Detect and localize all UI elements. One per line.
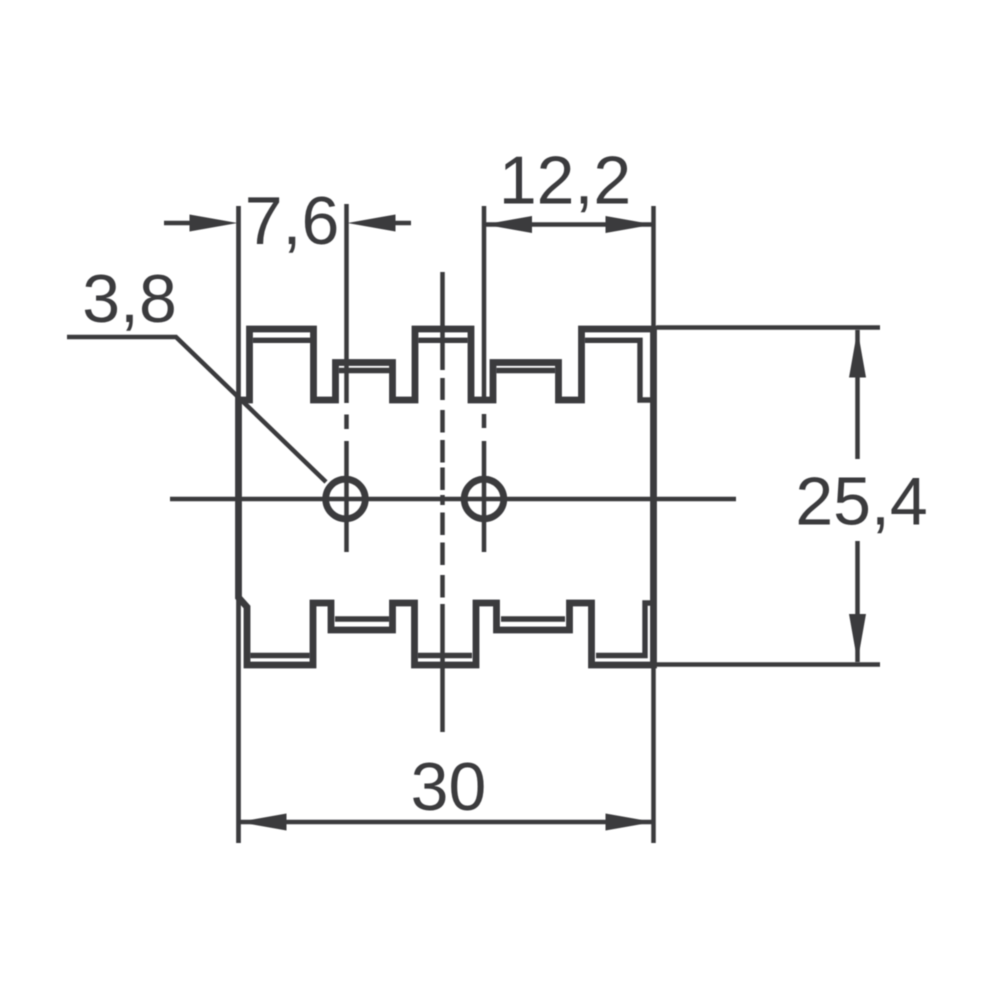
horizontal center line [170, 497, 736, 502]
central vertical axis line (dash-dot) [440, 272, 445, 732]
svg-text:7,6: 7,6 [245, 183, 340, 259]
tab T4 fold inner line (top short tab right) [497, 368, 556, 373]
dimension 25,4 : top extension line [657, 325, 881, 330]
mounting hole H1 (3,8 dia) [326, 479, 366, 519]
arrowhead 12,2 right (points right) [606, 216, 654, 233]
tab T3 fold inner line (top middle tall tab) [419, 338, 468, 343]
arrowhead 12,2 left (points left) [484, 216, 532, 233]
tab B3 fold inner line (bottom middle tall tab) [418, 653, 472, 658]
tab T1 fold inner line (top-left tall tab) [253, 338, 311, 343]
dimension 12,2 : dimension line [484, 222, 654, 227]
left extension line / body left edge extension (x=238.5) [236, 206, 241, 843]
heatsink outer profile outline [239, 329, 654, 665]
arrowhead 7,6 right (points left at x=347) [348, 215, 396, 232]
tab B2 fold inner line (bottom short tab) [335, 616, 389, 621]
svg-text:3,8: 3,8 [82, 261, 177, 337]
tab B4 fold inner line (bottom short tab right) [501, 616, 565, 621]
tab B5 fold inner line with step (bottom-right tall tab) [596, 603, 651, 656]
dimension 30 : dimension line [239, 820, 654, 825]
arrowhead 25,4 top (points up) [849, 330, 866, 378]
dimension 25,4 : bottom extension line [657, 662, 881, 667]
right extension line above and below body (x=653.5) [651, 206, 656, 843]
hole H2 center line (vertical, dash-dot) [482, 206, 487, 552]
arrowhead 25,4 bottom (points down) [849, 614, 866, 662]
hole H1 center line (vertical, dash-dot) [344, 204, 349, 552]
arrowhead 30 right (points right) [606, 814, 654, 831]
mounting hole H2 [464, 479, 504, 519]
dimension 7,6 : left outside arrow tail [164, 221, 192, 226]
tab T5 fold inner line with step (top-right tall tab) [585, 340, 651, 400]
leader line for 3,8 [67, 337, 326, 482]
svg-text:25,4: 25,4 [795, 464, 927, 540]
tab B1 fold inner line (bottom-left tall tab) [251, 653, 310, 658]
svg-text:12,2: 12,2 [499, 143, 631, 219]
tab T2 fold inner line (top short tab) [339, 368, 390, 373]
svg-text:30: 30 [411, 749, 487, 825]
dimension 7,6 : right outside arrow tail [393, 221, 411, 226]
arrowhead 7,6 left (points right at x=237) [190, 215, 238, 232]
arrowhead 30 left (points left) [239, 814, 287, 831]
dimension 25,4 : dimension line segments [855, 330, 860, 662]
